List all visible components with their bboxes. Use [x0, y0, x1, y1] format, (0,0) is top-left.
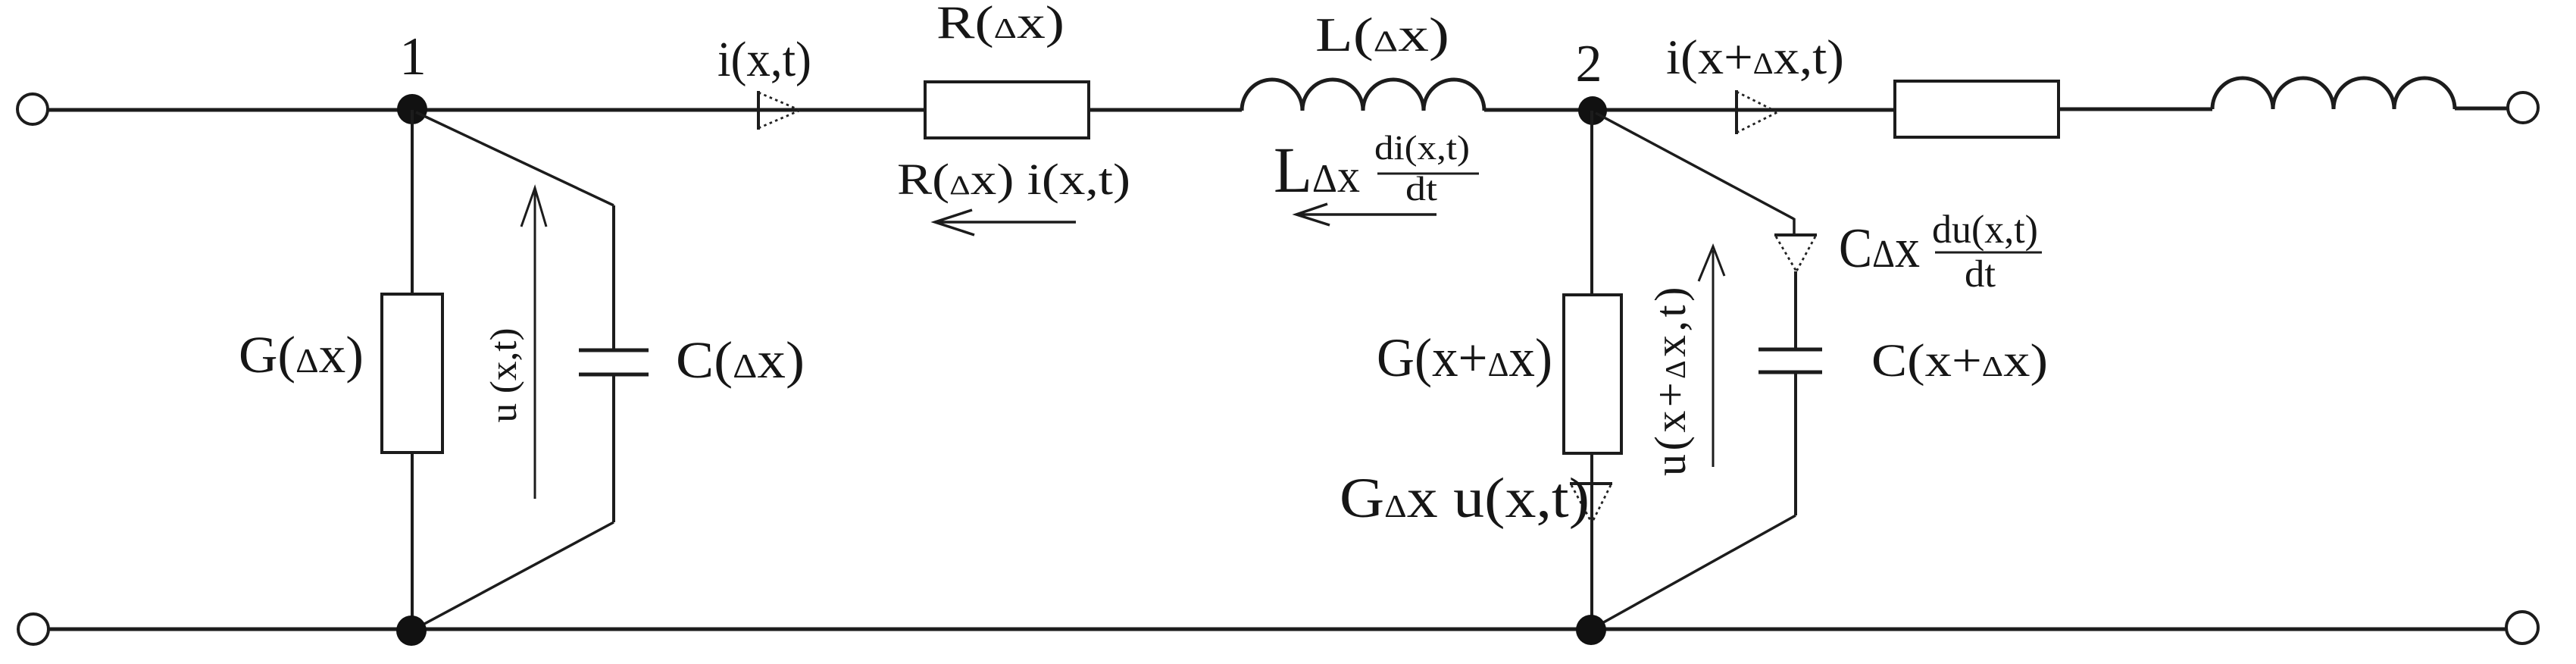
svg-text:R(Δx): R(Δx) [936, 0, 1064, 49]
terminal bottom-left [18, 614, 48, 644]
capacitor C1 bottom lead [612, 376, 615, 522]
svg-text:L(Δx): L(Δx) [1315, 8, 1449, 61]
wire top rail left (terminal to node 1 to R1) [48, 108, 925, 112]
wire L1 to node 2 [1484, 108, 1895, 112]
terminal top-left [17, 94, 48, 124]
wire bottom rail [49, 628, 2506, 631]
node 1' bottom [396, 615, 427, 646]
svg-text:G(x+Δx): G(x+Δx) [1377, 327, 1552, 388]
svg-text:CΔx: CΔx [1839, 218, 1920, 280]
node 1 [397, 94, 427, 124]
svg-text:i(x,t): i(x,t) [717, 32, 811, 87]
wire node 2 down to G box right [1590, 111, 1593, 295]
conductance G(dx) box [382, 294, 442, 453]
wire between R2 and L2 [2059, 108, 2212, 111]
terminal top-right [2508, 92, 2538, 123]
capacitor C1 top lead [612, 205, 615, 349]
inductor right section [2212, 78, 2455, 109]
svg-text:C(x+Δx): C(x+Δx) [1871, 336, 2048, 387]
node 2' bottom [1576, 615, 1606, 645]
wire L2 to terminal top-right [2455, 107, 2508, 111]
svg-text:G(Δx): G(Δx) [239, 326, 364, 384]
wire G2 box to bottom node 2' [1590, 453, 1593, 630]
svg-text:u(x+Δx,t): u(x+Δx,t) [1646, 283, 1695, 476]
current arrow G dx u (down triangle) [1570, 482, 1612, 485]
capacitor C2 upper lead [1793, 218, 1796, 236]
resistor R(dx) box [925, 82, 1089, 138]
wire between R1 and L1 [1089, 108, 1242, 112]
fraction bar 2 [1935, 252, 2042, 254]
current arrow i(x+dx,t) [1735, 90, 1738, 134]
diagonal node 1 to capacitor C1 [416, 112, 614, 205]
svg-text:GΔx u(x,t): GΔx u(x,t) [1340, 467, 1590, 530]
voltage-drop arrow for L [1296, 204, 1436, 225]
voltage arrow u(x+dx,t) [1699, 246, 1724, 467]
diagonal C1 to bottom node 1' [416, 522, 614, 628]
svg-text:2: 2 [1576, 35, 1602, 93]
svg-text:C(Δx): C(Δx) [676, 331, 805, 389]
capacitor C(x+dx) plates [1758, 349, 1822, 372]
inductor L(dx) [1242, 80, 1484, 111]
conductance G(x+dx) box [1564, 295, 1621, 453]
diagonal C2 to bottom node 2' [1594, 515, 1796, 628]
wire node 1 down to G box [411, 110, 414, 294]
voltage arrow u(x,t) [521, 188, 546, 499]
capacitor C2 top lead [1794, 271, 1797, 348]
terminal bottom-right [2506, 612, 2538, 644]
svg-text:R(Δx) i(x,t): R(Δx) i(x,t) [897, 155, 1130, 204]
capacitor C2 bottom lead [1794, 374, 1797, 515]
svg-text:dt: dt [1405, 169, 1437, 208]
diagonal node 2 to capacitor C2 [1596, 113, 1794, 219]
capacitor C(dx) plates [579, 350, 649, 374]
fraction bar 1 [1377, 173, 1479, 175]
wire G box to bottom node 1' [411, 453, 414, 630]
svg-text:u (x,t): u (x,t) [482, 328, 524, 423]
svg-text:LΔx: LΔx [1274, 133, 1360, 206]
current arrow C dx du/dt (down triangle) [1774, 233, 1817, 236]
svg-text:di(x,t): di(x,t) [1374, 128, 1470, 167]
svg-text:du(x,t): du(x,t) [1932, 208, 2038, 252]
svg-text:1: 1 [399, 27, 427, 86]
node 2 [1578, 96, 1607, 125]
resistor box right section [1895, 81, 2059, 137]
svg-text:i(x+Δx,t): i(x+Δx,t) [1666, 30, 1844, 85]
current arrow i(x,t) [757, 91, 760, 130]
svg-text:dt: dt [1965, 253, 1996, 296]
voltage-drop arrow for R [935, 210, 1076, 235]
